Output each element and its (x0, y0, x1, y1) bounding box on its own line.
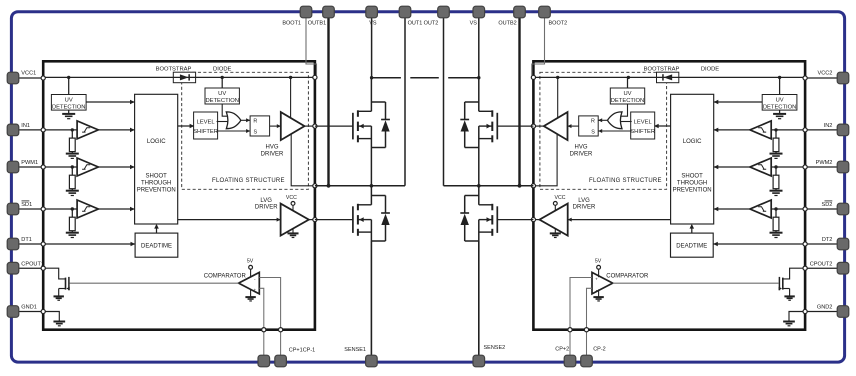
svg-text:DRIVER: DRIVER (261, 152, 284, 158)
bootstrap diode D2 box (657, 72, 679, 83)
svg-text:R: R (591, 119, 595, 125)
svg-text:DRIVER: DRIVER (570, 152, 593, 158)
pin IN1 wire (13, 129, 43, 131)
pin VCC1 wire (13, 77, 43, 79)
comparator ground (250, 289, 252, 296)
schmitt trigger buffer (SD1) (77, 200, 98, 218)
svg-text:R: R (253, 119, 257, 125)
pad BOOT2 (539, 6, 551, 18)
svg-text:SHOOT: SHOOT (146, 173, 168, 179)
svg-text:SHIFTER: SHIFTER (193, 129, 218, 135)
pad CP-1 (275, 355, 287, 367)
svg-text:BOOTSTRAP: BOOTSTRAP (644, 66, 680, 72)
LOGIC / shoot-through-prevention block (channel 2) (671, 94, 714, 224)
svg-text:FLOATING STRUCTURE: FLOATING STRUCTURE (212, 178, 285, 184)
LEVEL SHIFTER block (channel 1) (194, 112, 218, 139)
svg-text:HVG: HVG (574, 145, 587, 151)
svg-text:VCC: VCC (555, 195, 566, 201)
junction VCC2/UV detection (778, 76, 781, 79)
svg-text:UV: UV (776, 97, 784, 103)
svg-text:LEVEL: LEVEL (634, 120, 653, 126)
UV detection block (VCC side, channel 2) (762, 95, 797, 111)
VCC1 rail to bootstrap (43, 76, 315, 78)
svg-text:DIODE: DIODE (701, 66, 719, 72)
low-side MOSFET Q4 (491, 204, 493, 211)
pad OUT1 (399, 6, 411, 18)
UV detection block (floating structure, channel 1) (205, 88, 239, 104)
pad CP-2 (581, 355, 593, 367)
schmitt trigger buffer (PWM2) (750, 158, 771, 176)
buffer PWM1 output to LOGIC (98, 166, 134, 168)
svg-text:+: + (595, 276, 598, 281)
svg-text:SENSE1: SENSE1 (344, 347, 366, 353)
comparator (channel 1) (239, 272, 260, 294)
svg-text:LOGIC: LOGIC (683, 139, 702, 145)
pin VS1 wire (371, 14, 373, 78)
svg-text:GND1: GND1 (21, 305, 37, 311)
pin BOOT2 wire (532, 16, 545, 76)
svg-text:+: + (253, 287, 256, 292)
GND2 to ground symbol (789, 312, 805, 322)
pad OUTB2 (514, 6, 526, 18)
svg-text:COMPARATOR: COMPARATOR (204, 274, 247, 280)
chip edge terminals (channel 1) (41, 76, 45, 80)
CP pad wires below chip (channel 2) (569, 330, 571, 357)
high-side MOSFET Q3 drain feed (478, 78, 480, 112)
pulldown resistor (IN1) (71, 130, 73, 138)
SD1 wire to buffer (43, 208, 77, 210)
pin OUT2 wire (443, 14, 445, 186)
pin GND1 wire (13, 311, 43, 313)
svg-text:THROUGH: THROUGH (677, 181, 707, 187)
junction SD2 pulldown (774, 207, 777, 210)
OR gate to R input arrow (241, 119, 250, 121)
ground of SD2 pulldown (770, 232, 783, 234)
LOGIC to LEVEL SHIFTER wire (654, 125, 671, 127)
phase node wire (half-bridge 2) (444, 185, 534, 187)
svg-text:5V: 5V (595, 258, 602, 264)
schmitt trigger buffer (IN2) (750, 121, 771, 139)
IN2 wire to buffer (771, 129, 805, 131)
junction OUTB1 / phase node (327, 184, 331, 188)
pads side 2: VCC2 IN2 PWM2 SD2 DT2 CPOUT2 GND2 (837, 72, 849, 84)
pin DT2 wire (805, 243, 843, 245)
svg-text:CPOUT2: CPOUT2 (810, 261, 833, 267)
LEVEL SHIFTER to S input wire (217, 130, 251, 132)
pulldown resistor (IN2) (775, 130, 777, 138)
comparator lower input wire (channel 2) (587, 288, 593, 329)
pulldown resistor (SD1) (71, 209, 73, 217)
svg-text:BOOT2: BOOT2 (549, 20, 568, 26)
junction bootstrap rail / UV detection (floating, channel 2) (627, 76, 630, 79)
DT2 wire to DEADTIME (713, 243, 805, 245)
floating structure dashed boundary (channel 2) (540, 72, 667, 189)
HVG driver amplifier (channel 1) (281, 112, 305, 140)
svg-text:LVG: LVG (578, 198, 590, 204)
open-drain FET source to ground (58, 289, 60, 296)
svg-text:VCC: VCC (286, 195, 297, 201)
svg-text:CPOUT1: CPOUT1 (21, 261, 44, 267)
pad OUT2 (438, 6, 450, 18)
junction OUTB2 / phase node (518, 184, 522, 188)
junction bootstrap rail / UV detection (floating, channel 1) (221, 76, 224, 79)
pin OUT1 wire (404, 14, 406, 186)
LVG driver output wire (309, 219, 315, 221)
svg-text:DEADTIME: DEADTIME (676, 244, 707, 250)
pin PWM1 wire (13, 166, 43, 168)
HVG driver output wire (533, 125, 543, 127)
HVG driver supply stem (290, 77, 292, 118)
svg-text:HVG: HVG (265, 145, 278, 151)
ground of SD1 pulldown (66, 232, 79, 234)
ground of IN2 pulldown (770, 153, 783, 155)
pad BOOT1 (300, 6, 312, 18)
svg-text:VS: VS (369, 20, 377, 26)
svg-text:SENSE2: SENSE2 (484, 345, 506, 351)
junction IN1 pulldown (71, 128, 74, 131)
UV detection to LOGIC arrow (714, 101, 763, 103)
pin PWM2 wire (805, 166, 843, 168)
LVG driver ground (292, 229, 294, 233)
pin DT1 wire (13, 243, 43, 245)
HV bus wire (top) (372, 77, 401, 79)
buffer IN1 output to LOGIC (98, 129, 134, 131)
pad SENSE2 (473, 355, 485, 367)
RS latch block (channel 2) (579, 116, 599, 136)
svg-text:IN2: IN2 (824, 123, 833, 129)
svg-text:DETECTION: DETECTION (763, 104, 797, 110)
svg-text:S: S (253, 130, 257, 136)
UV detection block (floating structure, channel 2) (610, 88, 644, 104)
LVG driver VCC terminal (554, 205, 556, 211)
UV detection stem (floating) (627, 77, 629, 88)
low-side MOSFET Q2 (357, 204, 359, 211)
OR gate (channel 2) (608, 112, 623, 129)
high-side MOSFET Q3 (491, 110, 493, 117)
junction source / phase node (half-bridge 1) (370, 184, 374, 188)
comparator output wire to FET gate (613, 282, 779, 284)
schmitt trigger buffer (SD2) (750, 200, 771, 218)
high-side MOSFET Q1 drain feed (370, 78, 372, 112)
ground of PWM2 pulldown (770, 190, 783, 192)
LVG driver input wire from LOGIC (568, 219, 671, 221)
open-drain FET (channel 2) (782, 278, 784, 290)
LOGIC to LEVEL SHIFTER wire (178, 125, 195, 127)
high-side MOSFET Q1 source to phase (370, 148, 372, 186)
HVG driver amplifier (channel 2) (544, 112, 568, 140)
svg-text:FLOATING STRUCTURE: FLOATING STRUCTURE (589, 178, 662, 184)
svg-text:GND2: GND2 (817, 305, 833, 311)
DEADTIME block (channel 2) (671, 233, 714, 257)
junction PWM2 pulldown (774, 165, 777, 168)
comparator upper input wire (channel 1) (259, 278, 280, 330)
high-side MOSFET Q3 gate wire (497, 125, 533, 127)
svg-text:COMPARATOR: COMPARATOR (606, 274, 649, 280)
svg-text:S: S (591, 130, 595, 136)
PWM1 wire to buffer (43, 166, 77, 168)
junction IN2 pulldown (774, 128, 777, 131)
junction VS2 / HV bus (477, 76, 480, 79)
pad CP+2 (564, 355, 576, 367)
svg-text:LOGIC: LOGIC (147, 139, 166, 145)
svg-text:DT1: DT1 (21, 237, 32, 243)
buffer IN2 output to LOGIC (714, 129, 750, 131)
UV detection block (VCC side, channel 1) (51, 95, 86, 111)
ground below UV detection (channel 2) (779, 110, 781, 113)
svg-text:PREVENTION: PREVENTION (673, 188, 712, 194)
PWM2 wire to buffer (771, 166, 805, 168)
svg-text:UV: UV (65, 97, 73, 103)
LEVEL SHIFTER block (channel 2) (631, 112, 655, 139)
HVG driver output wire (305, 125, 315, 127)
pin IN2 wire (805, 129, 843, 131)
LEVEL SHIFTER to OR gate wire (620, 121, 631, 123)
junction VS1 / HV bus (370, 76, 373, 79)
pin VS2 wire (478, 14, 480, 78)
bootstrap diode D1 (173, 76, 195, 78)
DEADTIME to LOGIC arrow (691, 225, 693, 233)
low-side MOSFET Q4 drain feed (478, 186, 480, 205)
CP pad wires below chip (channel 1) (280, 330, 282, 357)
RS latch to HVG driver arrow (270, 125, 281, 127)
comparator upper input wire (channel 2) (570, 278, 592, 330)
svg-text:SD1: SD1 (21, 202, 32, 208)
gate driver IC U1 outline (43, 61, 315, 329)
svg-text:5V: 5V (247, 258, 254, 264)
RS latch block (channel 1) (250, 116, 270, 136)
pad VS (left) (366, 6, 378, 18)
comparator ground (598, 289, 600, 296)
pad SENSE1 (366, 355, 378, 367)
svg-text:PREVENTION: PREVENTION (137, 188, 176, 194)
low-side MOSFET Q4 gate wire (497, 219, 533, 221)
svg-text:THROUGH: THROUGH (141, 181, 171, 187)
pulldown resistor (PWM1) (71, 167, 73, 175)
pulldown resistor (SD2) (775, 209, 777, 217)
comparator (channel 2) (592, 272, 613, 294)
RS latch to HVG driver arrow (568, 125, 579, 127)
low-side MOSFET Q2 source to SENSE1 (370, 241, 372, 357)
svg-text:VS: VS (470, 20, 478, 26)
high-side MOSFET Q1 gate wire (315, 125, 353, 127)
IN1 wire to buffer (43, 129, 77, 131)
CPOUT1 wire to open-drain FET (43, 268, 65, 279)
junction VCC rail / HVG supply (channel 2) (556, 76, 559, 79)
svg-text:PWM1: PWM1 (21, 160, 38, 166)
LOGIC / shoot-through-prevention block (channel 1) (135, 94, 178, 224)
pin VCC2 wire (805, 77, 843, 79)
junction source / phase node (half-bridge 2) (477, 184, 481, 188)
svg-text:OUTB1: OUTB1 (308, 20, 326, 26)
pin GND2 wire (805, 311, 843, 313)
svg-text:DETECTION: DETECTION (611, 98, 645, 104)
CPOUT2 wire to open-drain FET (783, 268, 805, 279)
LEVEL SHIFTER to S input wire (598, 130, 632, 132)
low-side MOSFET Q2 drain feed (370, 186, 372, 205)
svg-text:CP+2: CP+2 (555, 346, 569, 352)
comparator lower input wire (channel 1) (259, 288, 264, 329)
junction PWM1 pulldown (71, 165, 74, 168)
svg-text:CP-2: CP-2 (593, 346, 606, 352)
gate driver IC U2 outline (533, 61, 805, 329)
GND1 to ground symbol (43, 312, 59, 322)
bootstrap diode D2 (657, 76, 679, 78)
open-drain FET (channel 1) (65, 278, 67, 290)
phase node wire (half-bridge 1) (315, 185, 405, 187)
svg-text:OUT1: OUT1 (408, 20, 423, 26)
chip edge terminals (channel 2) (803, 76, 807, 80)
HVG driver supply stem (557, 77, 559, 118)
LEVEL SHIFTER to OR gate wire (217, 121, 228, 123)
svg-text:IN1: IN1 (21, 123, 30, 129)
svg-text:DRIVER: DRIVER (255, 205, 278, 211)
junction SD1 pulldown (71, 207, 74, 210)
UV detection stem (floating) (221, 77, 223, 88)
comparator output wire to FET gate (69, 282, 238, 284)
svg-text:PWM2: PWM2 (816, 160, 833, 166)
pin CPOUT2 wire (805, 267, 843, 269)
pad OUTB1 (323, 6, 335, 18)
LVG driver VCC terminal (292, 205, 294, 211)
svg-text:DRIVER: DRIVER (573, 205, 596, 211)
svg-text:DEADTIME: DEADTIME (141, 244, 172, 250)
svg-text:VCC2: VCC2 (817, 71, 832, 77)
buffer SD2 output to LOGIC (714, 208, 750, 210)
pin OUTB1 wire (327, 14, 329, 186)
svg-text:DETECTION: DETECTION (52, 104, 86, 110)
LVG driver input wire from LOGIC (178, 219, 281, 221)
svg-text:DETECTION: DETECTION (205, 98, 239, 104)
bootstrap diode D1 box (173, 72, 195, 83)
pads side 1: VCC1 IN1 PWM1 SD1 DT1 CPOUT1 GND1 (7, 72, 19, 84)
UV detection (floating) to OR gate wire (620, 104, 627, 116)
comparator 5V terminal (598, 269, 600, 277)
pulldown resistor (PWM2) (775, 167, 777, 175)
ground of PWM1 pulldown (66, 190, 79, 192)
HVG driver return wire to OUT node (533, 134, 557, 185)
LVG driver amplifier (channel 2) (540, 204, 568, 236)
svg-text:LVG: LVG (260, 198, 272, 204)
DEADTIME block (channel 1) (135, 233, 178, 257)
svg-text:OUTB2: OUTB2 (498, 20, 516, 26)
DT1 wire to DEADTIME (43, 243, 135, 245)
ground below UV detection (channel 1) (68, 110, 70, 113)
pad VS (right) (473, 6, 485, 18)
pin BOOT1 wire (306, 16, 317, 76)
UV detection (VCC) stem (68, 77, 70, 94)
svg-text:BOOT1: BOOT1 (282, 20, 301, 26)
UV detection (VCC) stem (779, 77, 781, 94)
pin CPOUT1 wire (13, 267, 43, 269)
low-side MOSFET Q4 source to SENSE2 (478, 241, 480, 357)
junction VCC1/UV detection (67, 76, 70, 79)
pin OUTB2 wire (518, 14, 520, 186)
HVG driver return wire to OUT node (291, 134, 315, 185)
svg-text:SD2: SD2 (822, 202, 833, 208)
buffer SD1 output to LOGIC (98, 208, 134, 210)
OR gate (channel 1) (226, 112, 241, 129)
svg-text:SHOOT: SHOOT (681, 173, 703, 179)
pad CP+1 (258, 355, 270, 367)
comparator 5V terminal (250, 269, 252, 277)
ground of IN1 pulldown (66, 153, 79, 155)
svg-text:UV: UV (623, 91, 631, 97)
DEADTIME to LOGIC arrow (156, 225, 158, 233)
UV detection (floating) to OR gate wire (222, 104, 228, 116)
svg-text:LEVEL: LEVEL (197, 120, 216, 126)
svg-text:DIODE: DIODE (213, 66, 231, 72)
svg-text:CP+1CP-1: CP+1CP-1 (289, 347, 315, 353)
LVG driver output wire (533, 219, 539, 221)
pin SD1 wire (13, 208, 43, 210)
LVG driver ground (554, 229, 556, 233)
low-side MOSFET Q2 gate wire (315, 219, 353, 221)
high-side MOSFET Q1 (357, 110, 359, 117)
VCC2 rail to bootstrap (533, 76, 805, 78)
buffer PWM2 output to LOGIC (714, 166, 750, 168)
svg-text:BOOTSTRAP: BOOTSTRAP (156, 66, 192, 72)
floating structure dashed boundary (channel 1) (182, 72, 309, 189)
open-drain FET source to ground (789, 289, 791, 296)
UV detection to LOGIC arrow (86, 101, 135, 103)
svg-text:UV: UV (218, 91, 226, 97)
high-side MOSFET Q3 source to phase (478, 148, 480, 186)
junction VCC rail / HVG supply (channel 1) (289, 76, 292, 79)
SD2 wire to buffer (771, 208, 805, 210)
svg-text:VCC1: VCC1 (21, 71, 36, 77)
schmitt trigger buffer (IN1) (77, 121, 98, 139)
schmitt trigger buffer (PWM1) (77, 158, 98, 176)
pin SD2 wire (805, 208, 843, 210)
svg-text:SHIFTER: SHIFTER (630, 129, 655, 135)
svg-text:OUT2: OUT2 (424, 20, 439, 26)
svg-text:DT2: DT2 (822, 237, 833, 243)
OR gate to R input arrow (598, 119, 607, 121)
LVG driver amplifier (channel 1) (281, 204, 309, 236)
